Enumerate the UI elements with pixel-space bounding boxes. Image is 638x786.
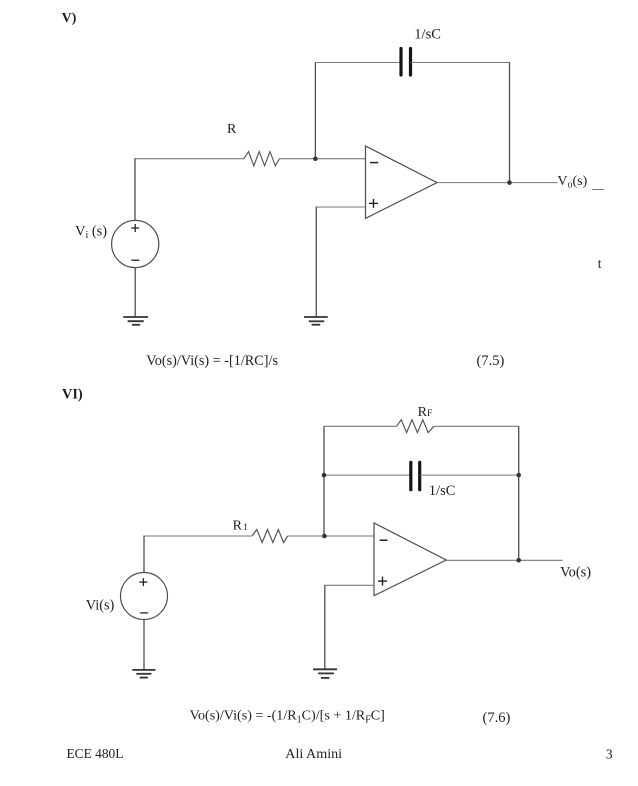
- wire: resistor R to op-amp inverting input: [280, 158, 366, 160]
- pin label minus (inverting): [380, 539, 388, 541]
- svg-text:VI): VI): [62, 387, 83, 403]
- wire: feedback resistor top left segment: [323, 425, 396, 427]
- wire: resistor R1 to op-amp inverting input: [288, 535, 374, 537]
- wire: vertical feedback down to output node: [509, 63, 511, 183]
- wire: op-amp output: [446, 559, 563, 561]
- svg-text:Vi (s): Vi (s): [75, 223, 107, 241]
- node: output junction: [516, 558, 521, 563]
- polarity minus inside source: [131, 259, 139, 261]
- svg-text:Vi(s): Vi(s): [86, 597, 115, 613]
- node: output junction: [507, 180, 512, 185]
- wire: feedback top left segment: [315, 62, 401, 64]
- resistor R1: [252, 530, 288, 543]
- stray underscore mark: [592, 189, 604, 191]
- svg-text:Vo(s)/Vi(s) = -[1/RC]/s: Vo(s)/Vi(s) = -[1/RC]/s: [146, 353, 278, 369]
- svg-text:(7.6): (7.6): [483, 710, 511, 726]
- wire: capacitor branch left segment: [324, 474, 411, 476]
- wire: op-amp output: [437, 182, 558, 184]
- wire: source bottom to ground: [143, 620, 145, 670]
- wire: feedback resistor top right segment: [434, 425, 520, 427]
- wire: input horizontal to resistor R1: [144, 535, 252, 537]
- wire: non-inverting input to ground stem: [325, 584, 374, 586]
- svg-text:Ali Amini: Ali Amini: [285, 746, 342, 762]
- svg-text:3: 3: [606, 747, 613, 762]
- wire: vertical from node up to feedback capacitor branch: [314, 63, 316, 159]
- ground (source Vi): [132, 670, 155, 678]
- ground (source Vi): [123, 317, 148, 325]
- op-amp U2: [374, 523, 446, 596]
- wire: feedback top right segment: [411, 62, 510, 64]
- wire: capacitor branch right segment: [420, 474, 519, 476]
- svg-text:V): V): [62, 11, 77, 26]
- pin label plus (non-inverting): [369, 199, 378, 208]
- wire: input node down to source Vi: [143, 536, 145, 573]
- node: inverting input junction: [313, 156, 318, 161]
- pin label plus (non-inverting): [378, 577, 387, 586]
- wire: right feedback vertical: [518, 426, 520, 560]
- polarity plus inside source: [131, 224, 139, 232]
- node: capacitor branch left junction: [322, 473, 327, 478]
- op-amp U1: [366, 146, 438, 218]
- capacitor 1/sC (parallel feedback): [411, 462, 420, 489]
- svg-text:t: t: [598, 256, 602, 271]
- wire: source bottom to ground: [134, 268, 136, 317]
- pin label minus (inverting): [370, 162, 378, 164]
- wire: non-inverting input to ground stem: [316, 206, 365, 208]
- polarity plus inside source: [139, 578, 147, 586]
- svg-text:1/sC: 1/sC: [414, 27, 441, 43]
- svg-text:Vo(s)/Vi(s) = -(1/R1C)/[s + 1/: Vo(s)/Vi(s) = -(1/R1C)/[s + 1/RFC]: [190, 707, 385, 725]
- capacitor 1/sC (integrator feedback): [401, 49, 411, 76]
- svg-text:ECE 480L: ECE 480L: [67, 746, 124, 761]
- source Vi(s) (voltage source circle): [112, 220, 159, 267]
- node: capacitor branch right junction: [516, 473, 521, 478]
- wire: left feedback vertical: [323, 426, 325, 536]
- node: inverting input junction: [322, 534, 327, 539]
- polarity minus inside source: [140, 612, 148, 614]
- svg-text:Vo(s): Vo(s): [557, 174, 587, 191]
- svg-text:R: R: [227, 122, 237, 137]
- svg-text:1/sC: 1/sC: [429, 483, 456, 499]
- source Vi(s) (voltage source circle): [121, 573, 168, 620]
- wire: input node down to source Vi: [134, 158, 136, 220]
- ground (op-amp non-inverting): [313, 669, 337, 678]
- resistor RF (feedback): [397, 420, 434, 433]
- ground (op-amp non-inverting): [304, 317, 328, 325]
- resistor R: [244, 152, 280, 166]
- svg-text:Vo(s): Vo(s): [560, 564, 591, 580]
- svg-text:(7.5): (7.5): [477, 353, 505, 369]
- wire: input horizontal to resistor R: [135, 158, 244, 160]
